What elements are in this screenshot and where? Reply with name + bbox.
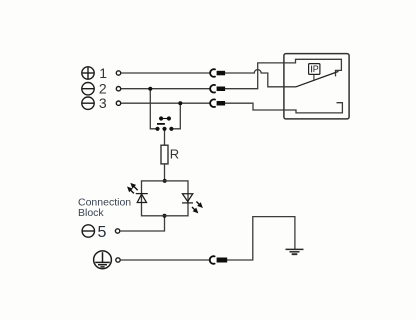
svg-text:R: R — [170, 147, 179, 162]
svg-text:1: 1 — [99, 65, 107, 81]
svg-text:3: 3 — [99, 95, 107, 111]
svg-text:Block: Block — [78, 207, 104, 219]
svg-text:5: 5 — [98, 224, 107, 241]
svg-text:P: P — [313, 64, 319, 74]
